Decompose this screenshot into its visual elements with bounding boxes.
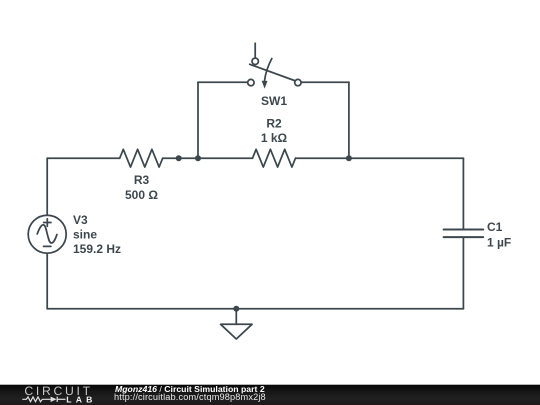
wire left vertical upper bbox=[46, 158, 48, 215]
svg-text:sine: sine bbox=[73, 228, 97, 242]
wire right vertical lower bbox=[462, 237, 464, 308]
footer top edge AA row bbox=[0, 384, 540, 385]
footer line 2 bbox=[114, 393, 266, 402]
node dot ground bbox=[233, 306, 239, 312]
CircuitLab logo bbox=[0, 385, 110, 405]
svg-text:1 µF: 1 µF bbox=[487, 235, 511, 249]
wire top-middle segment bbox=[163, 157, 253, 159]
svg-text:R2: R2 bbox=[266, 116, 282, 130]
svg-text:1 kΩ: 1 kΩ bbox=[261, 131, 288, 145]
wire bottom bbox=[47, 308, 463, 310]
svg-text:SW1: SW1 bbox=[261, 94, 287, 108]
wire switch-loop top-left horizontal bbox=[198, 81, 248, 83]
switch SW1 bbox=[248, 43, 301, 88]
svg-text:V3: V3 bbox=[73, 213, 88, 227]
wire top-left segment bbox=[47, 157, 120, 159]
footer line 1 bbox=[115, 385, 265, 394]
junction dots bbox=[176, 155, 352, 312]
svg-text:159.2 Hz: 159.2 Hz bbox=[73, 242, 121, 256]
resistor R3 bbox=[120, 149, 163, 167]
svg-text:C1: C1 bbox=[487, 220, 503, 234]
wire top-right segment bbox=[296, 157, 464, 159]
node dot B bbox=[195, 155, 201, 161]
ground bbox=[221, 309, 252, 339]
svg-text:LAB: LAB bbox=[66, 395, 96, 405]
resistor R2 bbox=[253, 149, 296, 167]
capacitor C1 bbox=[444, 230, 484, 238]
node dot C bbox=[346, 155, 352, 161]
wire switch-loop right vertical bbox=[348, 82, 350, 158]
node dot A bbox=[176, 155, 182, 161]
svg-text:500 Ω: 500 Ω bbox=[125, 188, 158, 202]
wire left vertical lower bbox=[46, 253, 48, 309]
wire switch-loop top-right horizontal bbox=[301, 81, 349, 83]
svg-text:R3: R3 bbox=[134, 173, 150, 187]
voltage source V3 bbox=[28, 215, 66, 253]
wire right vertical upper bbox=[462, 158, 464, 229]
wire switch-loop left vertical bbox=[197, 82, 199, 158]
